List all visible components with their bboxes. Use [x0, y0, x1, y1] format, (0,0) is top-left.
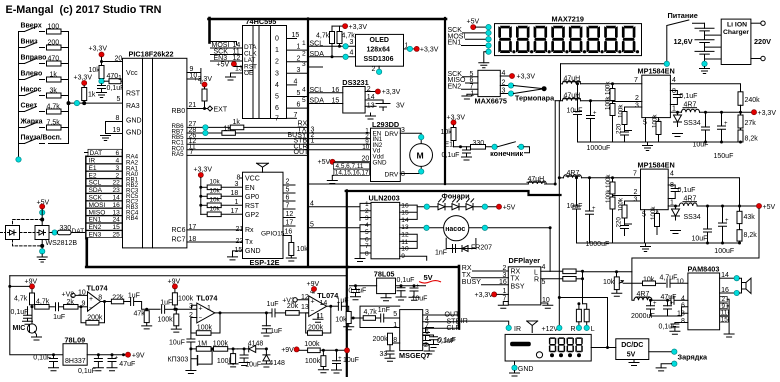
- potentiometer 10k volume: [603, 277, 643, 296]
- svg-text:1: 1: [118, 75, 122, 82]
- switch Насос: [19, 87, 45, 96]
- svg-text:MP1584EN: MP1584EN: [638, 67, 675, 76]
- wire lamps row: [417, 206, 496, 208]
- ground MP1584: [647, 142, 649, 146]
- buck converter U10 MP1584EN (5V): [633, 161, 675, 219]
- svg-text:43k: 43k: [744, 214, 756, 221]
- dot leds: [550, 353, 554, 357]
- lamp LED3: [466, 199, 474, 210]
- label SCK to 595 pin 11: [211, 48, 243, 55]
- svg-text:12: 12: [286, 211, 294, 218]
- svg-text:VCC: VCC: [245, 176, 260, 183]
- wire input to 78L05: [350, 285, 377, 287]
- capacitor 10uF input: [567, 82, 583, 142]
- resistor 4,7k series: [35, 299, 55, 310]
- node EXT: [187, 102, 228, 114]
- capacitor 10uF agc: [239, 347, 261, 368]
- wire dashed chain links: [13, 218, 44, 251]
- svg-text:R: R: [534, 277, 539, 284]
- svg-text:0,1uF: 0,1uF: [680, 93, 698, 100]
- resistor 100k fb2: [605, 96, 642, 142]
- +3,3V pullup endstop E1: [447, 115, 466, 128]
- node DAT out: [52, 230, 57, 235]
- wire caps to pin6/13: [651, 307, 688, 316]
- wire branch from pump row down: [549, 228, 551, 272]
- resistor 10k at GPIO15: [283, 236, 291, 243]
- svg-text:12: 12: [401, 232, 409, 239]
- svg-text:1: 1: [670, 200, 674, 207]
- opamp U15B TL074: [189, 294, 218, 323]
- resistor 330 endstop: [461, 140, 492, 149]
- inductor 4R7 output: [670, 102, 753, 113]
- svg-text:5V: 5V: [424, 273, 433, 282]
- wire 78L05 out: [396, 285, 426, 287]
- resistor 100k to gnd: [158, 308, 182, 332]
- wire right bus of ladder: [68, 32, 70, 104]
- svg-text:220: 220: [616, 217, 623, 228]
- wire opamp1 out: [101, 301, 111, 303]
- svg-text:DRV: DRV: [385, 131, 399, 138]
- shift register U2 74HC595: [243, 17, 287, 123]
- svg-text:8,2k: 8,2k: [745, 136, 759, 143]
- svg-text:18: 18: [231, 190, 239, 197]
- svg-text:+: +: [89, 296, 93, 303]
- wire 12.6V down to converters: [555, 64, 560, 328]
- svg-text:4: 4: [670, 171, 674, 178]
- svg-text:100k: 100k: [605, 189, 612, 203]
- svg-text:0,1uF: 0,1uF: [107, 85, 125, 92]
- diode FR207: [460, 245, 492, 252]
- switch ladder buttons: [16, 23, 123, 163]
- digit 1: [498, 26, 512, 53]
- capacitor 4,7uF input: [660, 275, 688, 288]
- svg-text:5: 5: [310, 221, 314, 228]
- svg-text:0,1uF: 0,1uF: [438, 337, 456, 344]
- driver U11 ULN2003: [310, 194, 427, 262]
- svg-text:OUT: OUT: [294, 149, 310, 156]
- svg-text:10uF: 10uF: [343, 357, 359, 364]
- wire DC/DC input from 12V rail: [559, 298, 607, 348]
- svg-text:+: +: [199, 306, 203, 313]
- svg-text:13: 13: [235, 66, 243, 73]
- wire pin4 to divider (5V): [668, 178, 739, 212]
- svg-text:7: 7: [275, 115, 279, 122]
- node Зарядка minus: [672, 361, 677, 366]
- svg-text:3: 3: [503, 272, 507, 279]
- svg-text:EN: EN: [245, 185, 255, 192]
- node RST junction: [99, 79, 104, 84]
- svg-text:6: 6: [286, 195, 290, 202]
- svg-text:4: 4: [294, 79, 298, 86]
- label SDA pin 23: [86, 186, 122, 194]
- svg-text:15: 15: [113, 224, 121, 231]
- svg-text:GND: GND: [373, 159, 387, 166]
- wire BUSY from border: [462, 279, 509, 286]
- driver U5 L293DD: [318, 120, 433, 184]
- capacitor 220: [616, 123, 632, 142]
- svg-text:100k: 100k: [158, 317, 174, 324]
- svg-text:7: 7: [633, 171, 637, 178]
- digit 7: [604, 26, 618, 53]
- ground DFPlayer pin 7: [498, 296, 508, 309]
- svg-text:1: 1: [235, 199, 239, 206]
- inductor 4R7 supply: [632, 272, 652, 301]
- label EN2 pin 15: [86, 223, 122, 231]
- capacitor 1uF shunt: [261, 311, 282, 336]
- output stub 9: [400, 256, 427, 260]
- svg-text:E2: E2: [89, 172, 97, 179]
- svg-text:+3,3V: +3,3V: [447, 115, 466, 122]
- svg-text:RC7: RC7: [172, 237, 186, 244]
- digits 8888: [549, 337, 583, 352]
- capacitor 33 msgeq: [389, 345, 391, 351]
- wire STB to border: [423, 321, 458, 323]
- capacitor 1uF out: [337, 297, 349, 311]
- svg-text:−: −: [311, 309, 315, 315]
- resistor 10k ESP GP2: [201, 206, 243, 217]
- ground DS3231: [370, 113, 372, 116]
- resistor 8,2k (5V): [737, 230, 757, 245]
- svg-text:1k: 1k: [88, 92, 96, 99]
- wire STB row pin 12: [187, 138, 370, 145]
- resistor divider to display R: [576, 302, 581, 325]
- resistor 100k fb3: [618, 104, 642, 131]
- resistor 27k: [738, 112, 756, 130]
- switch Пауза/Восп.: [19, 128, 69, 144]
- resistor 10k to amp: [643, 277, 666, 286]
- wire 78L09 out rail: [87, 354, 126, 356]
- +3,3V node at 1k pull of RA3: [74, 75, 93, 86]
- +5V node for WS2812B strip: [37, 200, 50, 220]
- resistor divider to display L: [583, 304, 590, 326]
- svg-text:4: 4: [672, 77, 676, 84]
- capacitor 150uF output: [714, 111, 734, 160]
- label MOSI pin 16: [86, 201, 122, 209]
- diode 4148: [238, 341, 268, 353]
- resistor 200k feedback: [81, 307, 86, 323]
- capacitor 47uF: [653, 294, 677, 305]
- thermocouple junction: [514, 86, 545, 94]
- module U8 Li ION Charger: [721, 19, 771, 64]
- svg-text:TL074: TL074: [196, 294, 218, 303]
- svg-text:+5V: +5V: [318, 159, 331, 166]
- svg-text:14,15,16,17: 14,15,16,17: [335, 169, 369, 176]
- svg-text:5: 5: [393, 311, 397, 318]
- svg-text:+: +: [724, 121, 728, 127]
- svg-text:M: M: [417, 150, 424, 160]
- svg-text:EXT: EXT: [214, 107, 228, 114]
- svg-text:8: 8: [401, 171, 405, 178]
- wire output rail / bottom rail: [578, 141, 741, 143]
- wires 595 outputs to bus: [287, 32, 307, 119]
- resistor 22k: [111, 294, 130, 303]
- border lower right box right: [458, 266, 461, 329]
- resistor 2k to opamp: [64, 299, 88, 309]
- svg-text:ULN2003: ULN2003: [369, 194, 400, 203]
- svg-text:MP1584EN: MP1584EN: [638, 161, 675, 170]
- svg-text:4: 4: [302, 87, 306, 94]
- capacitor 2000uF b: [631, 299, 674, 320]
- svg-text:10k: 10k: [210, 188, 221, 195]
- svg-text:EN2: EN2: [89, 224, 102, 231]
- svg-text:8: 8: [116, 115, 120, 122]
- svg-text:2: 2: [635, 95, 639, 102]
- svg-text:10k: 10k: [297, 246, 309, 253]
- wire CLR row pin 11: [187, 143, 370, 150]
- svg-text:EN2: EN2: [448, 83, 462, 90]
- opamp U15A TL074: [62, 283, 109, 325]
- +3,3V pullup node OLED: [332, 24, 367, 31]
- digit 8: [622, 26, 636, 53]
- buck converter U9 MP1584EN (3.3V): [634, 67, 676, 127]
- capacitor 2000uF a: [647, 299, 658, 316]
- label 5V marked red: [420, 273, 441, 283]
- svg-text:15: 15: [292, 32, 300, 39]
- resistor 8,2k: [738, 130, 758, 144]
- svg-text:+5V: +5V: [763, 204, 776, 211]
- capacitor 0,1uF msgeq pin6: [423, 335, 434, 337]
- svg-text:5: 5: [297, 90, 301, 97]
- wire TX row pin 28: [187, 127, 315, 136]
- svg-text:DAT: DAT: [72, 228, 85, 235]
- ESP right stub pins 2 5 6 7 12 17: [286, 179, 294, 227]
- svg-text:100uF: 100uF: [714, 248, 734, 255]
- switch конечник: [490, 142, 529, 158]
- +3,3V pullups for ESP: [194, 167, 213, 215]
- wire battery taps to charger: [705, 35, 722, 59]
- node lamps +5V: [482, 204, 487, 209]
- svg-text:0,1uF: 0,1uF: [397, 277, 415, 284]
- label E1 pin 3: [86, 164, 122, 172]
- svg-text:4,7k: 4,7k: [316, 33, 330, 40]
- svg-text:23: 23: [113, 187, 121, 194]
- svg-text:14: 14: [113, 195, 121, 202]
- svg-text:10: 10: [362, 144, 370, 151]
- diode 4148 shunt: [261, 349, 285, 367]
- battery 12,6V pack: [674, 23, 722, 64]
- capacitor 0,1uF 78L09 in: [33, 353, 63, 371]
- ground DFPlayer pin 10: [541, 297, 553, 308]
- resistor 1k in RX row: [230, 119, 306, 130]
- svg-text:MISO: MISO: [89, 209, 106, 216]
- svg-text:DFPlayer: DFPlayer: [509, 256, 541, 265]
- pump M2 насос: [444, 216, 469, 241]
- border main box bottom: [86, 266, 348, 269]
- svg-text:10k: 10k: [335, 316, 347, 323]
- resistor 100k vplus: [299, 341, 349, 353]
- svg-text:GND: GND: [126, 118, 142, 125]
- resistor 4,7k: [47, 104, 69, 115]
- svg-text:+3,3V: +3,3V: [194, 167, 213, 174]
- svg-text:4,7k: 4,7k: [364, 309, 378, 316]
- display module TM1637 8888: [505, 334, 591, 376]
- resistor 1k in TX row: [222, 126, 370, 136]
- svg-text:0,1uF: 0,1uF: [442, 152, 460, 159]
- wire MOSI row to module: [448, 33, 492, 42]
- node +9V mic: [25, 279, 38, 290]
- svg-text:+: +: [593, 111, 597, 117]
- digit 3: [534, 26, 548, 53]
- resistor 10k ESP EN: [199, 179, 242, 190]
- svg-text:GP0: GP0: [245, 194, 259, 201]
- svg-text:DAT: DAT: [90, 150, 103, 157]
- resistor 10k vertical at RST: [89, 62, 105, 82]
- svg-text:MOSI: MOSI: [89, 202, 106, 209]
- wire RX from border: [462, 265, 509, 272]
- wire msgeq pin1 loop: [360, 306, 400, 327]
- svg-text:100k: 100k: [304, 341, 320, 348]
- node +5V output: [738, 203, 775, 210]
- svg-text:6: 6: [297, 102, 301, 109]
- label MOSI to 595 pin 14: [211, 42, 243, 49]
- svg-text:15: 15: [721, 316, 729, 323]
- capacitor 1uF 3: [160, 300, 175, 314]
- svg-text:6: 6: [275, 105, 279, 112]
- resistor 470 to RST pin1: [104, 73, 122, 84]
- bus bar left of PIC: [85, 156, 88, 240]
- capacitor 0,1uF bst (5V): [668, 185, 695, 199]
- antenna of ESP: [257, 163, 269, 172]
- svg-text:+5V: +5V: [503, 205, 516, 212]
- capacitor 1000uF input: [587, 99, 611, 152]
- svg-text:ESP-12E: ESP-12E: [250, 258, 280, 267]
- svg-text:8: 8: [672, 88, 676, 95]
- node L display: [584, 325, 595, 333]
- svg-text:7: 7: [294, 112, 298, 119]
- svg-text:Вправо: Вправо: [21, 55, 47, 62]
- svg-text:240k: 240k: [745, 97, 761, 104]
- resistor 1k L out: [541, 264, 583, 304]
- svg-text:GND: GND: [126, 130, 142, 137]
- label SCK pin 14: [86, 194, 122, 202]
- ground PAM right: [724, 334, 734, 337]
- svg-text:20: 20: [115, 56, 123, 63]
- svg-text:−: −: [89, 306, 93, 312]
- resistor 200: [47, 40, 69, 51]
- svg-text:+5V: +5V: [217, 62, 230, 69]
- svg-text:Rx: Rx: [245, 227, 254, 234]
- resistor 100k agc: [213, 341, 238, 352]
- svg-text:SCL: SCL: [89, 180, 102, 187]
- svg-text:5: 5: [365, 229, 369, 236]
- svg-text:2: 2: [372, 66, 376, 73]
- svg-text:1: 1: [297, 44, 301, 51]
- resistor 1M: [196, 341, 215, 352]
- svg-text:7: 7: [634, 77, 638, 84]
- microphone MIC: [13, 315, 42, 340]
- svg-text:22: 22: [236, 238, 244, 245]
- resistor 4,7k msgeq: [355, 309, 380, 321]
- wire bus row 3 stub: [302, 61, 323, 68]
- resistor 20k: [286, 303, 309, 315]
- svg-text:E1: E1: [445, 142, 454, 149]
- svg-text:14: 14: [401, 217, 409, 224]
- svg-text:+: +: [311, 299, 315, 306]
- svg-text:0,1uF: 0,1uF: [348, 288, 366, 295]
- ground MP1584 (5V): [645, 243, 647, 247]
- svg-text:BUSY: BUSY: [462, 279, 481, 286]
- svg-text:RA3: RA3: [126, 103, 140, 110]
- input stubs left bracket 4-8: [360, 225, 371, 253]
- input stubs left bracket 1-3: [360, 203, 371, 220]
- svg-text:16: 16: [285, 229, 293, 236]
- label SCL pin 22: [86, 179, 122, 187]
- switch Влево: [19, 71, 45, 80]
- svg-text:+V2: +V2: [62, 292, 75, 299]
- resistor 47k to gnd: [134, 308, 152, 329]
- svg-text:MIC: MIC: [13, 325, 26, 332]
- switch Питание: [667, 20, 705, 61]
- label DAT pin 6: [85, 149, 123, 157]
- svg-text:2: 2: [302, 51, 306, 58]
- svg-text:5: 5: [117, 96, 121, 103]
- pins 9 10 OSC right of PIC: [187, 66, 201, 84]
- svg-text:+3,3V: +3,3V: [475, 292, 494, 299]
- ground L293DD: [332, 175, 333, 180]
- svg-text:3: 3: [350, 39, 354, 46]
- wire input 4 from bus: [310, 200, 361, 207]
- resistor 1k vertical: [82, 86, 96, 104]
- resistor 10k ESP GP0: [199, 188, 242, 199]
- svg-text:+3,3V: +3,3V: [89, 46, 108, 53]
- label IR pin 4: [86, 157, 122, 165]
- svg-text:1: 1: [503, 288, 507, 295]
- svg-text:8H337: 8H337: [65, 358, 86, 365]
- ground battery: [704, 67, 706, 69]
- svg-text:+: +: [115, 356, 119, 362]
- svg-text:12,6V: 12,6V: [674, 37, 693, 46]
- svg-text:1uF: 1uF: [267, 301, 279, 308]
- wire 12.6V rail: [561, 63, 667, 65]
- LED module WS2812B first: [35, 226, 49, 240]
- svg-text:4: 4: [275, 82, 279, 89]
- resistor 100k fb2 (5V): [605, 189, 641, 243]
- node Зарядка: [649, 351, 672, 353]
- regulator U18 78L09: [33, 336, 359, 375]
- svg-text:4,7uF: 4,7uF: [660, 275, 678, 282]
- wire +5V rail down to bottom section: [632, 209, 759, 272]
- resistor 4,7k pullup SCL: [316, 26, 335, 58]
- svg-text:RA5: RA5: [172, 151, 185, 158]
- svg-text:1: 1: [207, 305, 211, 312]
- svg-text:MSGEQ7: MSGEQ7: [399, 351, 430, 360]
- wire RX row pin 27: [187, 121, 308, 131]
- switch Вверх: [19, 23, 45, 32]
- svg-text:1: 1: [393, 322, 397, 329]
- svg-text:MAX6675: MAX6675: [475, 97, 507, 106]
- regulator U17 78L05: [348, 270, 440, 303]
- svg-text:0: 0: [275, 36, 279, 43]
- svg-text:128x64: 128x64: [367, 47, 390, 54]
- svg-text:25: 25: [113, 232, 121, 239]
- digit 4: [551, 26, 565, 53]
- switch Жарка: [19, 119, 45, 128]
- wire display to DC/DC: [591, 347, 616, 349]
- svg-text:1: 1: [672, 105, 676, 112]
- capacitor 10uF output: [693, 111, 710, 149]
- svg-text:GPIO15: GPIO15: [261, 231, 285, 238]
- svg-text:1uF: 1uF: [53, 314, 65, 321]
- svg-text:+3,3V: +3,3V: [420, 47, 439, 54]
- svg-text:3: 3: [635, 103, 639, 110]
- svg-text:Charger: Charger: [723, 29, 749, 36]
- node battery minus: [702, 61, 707, 66]
- +3,3V pullup at RB0/EXT: [194, 76, 213, 109]
- svg-text:20: 20: [362, 155, 370, 162]
- svg-text:3: 3: [634, 196, 638, 203]
- terminal 220V bottom: [751, 58, 761, 60]
- ground ULN2003: [359, 253, 361, 258]
